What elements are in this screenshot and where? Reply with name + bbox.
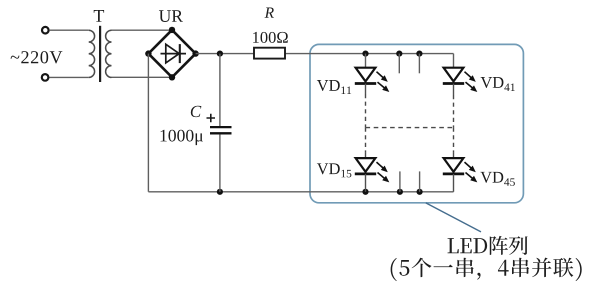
resistor R body xyxy=(254,48,285,59)
node: junction dot stub3 bottom xyxy=(417,189,423,195)
dashed string continuation VD11 column xyxy=(365,94,367,128)
dashed string continuation VD45 column xyxy=(453,128,455,153)
wire: capacitor upper lead xyxy=(219,54,221,126)
bridge corner dot bottom xyxy=(169,74,175,80)
LED VD41 label xyxy=(481,77,515,91)
transformer T secondary winding xyxy=(106,30,112,77)
wire: capacitor lower lead xyxy=(219,134,221,191)
LED VD41 xyxy=(443,68,478,95)
node: junction dot stub2 top xyxy=(396,51,402,57)
resistor R label xyxy=(265,8,274,18)
node: junction dot at capacitor top xyxy=(217,51,223,57)
AC source label ~220V xyxy=(11,51,63,63)
bridge rectifier UR body xyxy=(148,30,195,77)
wire: string3 stub bottom xyxy=(419,171,421,191)
LED array box xyxy=(310,44,523,202)
wire: VD15 anode nub xyxy=(365,153,367,159)
wire: string3 stub top xyxy=(418,54,420,74)
node: junction dot VD11 top xyxy=(362,51,368,57)
wire: VD41 branch from top wire xyxy=(453,54,455,68)
node: junction dot stub3 top xyxy=(416,51,422,57)
capacitor C label xyxy=(191,106,202,117)
LED VD45 xyxy=(443,158,478,192)
dashed horizontal tie xyxy=(366,127,454,129)
wire: resistor to LED array xyxy=(285,53,454,55)
wire: VD45 anode nub xyxy=(453,153,455,159)
wire: string2 stub bottom xyxy=(399,171,401,191)
LED VD15 xyxy=(355,158,390,192)
bridge rectifier UR label xyxy=(159,10,183,22)
transformer T label xyxy=(94,10,104,22)
wire: VD11 anode lead xyxy=(365,54,367,68)
dashed string continuation VD41 column xyxy=(453,95,455,128)
wire: secondary bottom to bridge xyxy=(112,76,173,78)
node: junction dot at capacitor bottom xyxy=(217,189,223,195)
transformer T core xyxy=(99,26,101,82)
dashed string continuation VD15 column xyxy=(365,128,367,153)
node: junction dot stub2 bottom xyxy=(397,189,403,195)
bridge corner dot left xyxy=(145,50,151,56)
wire: bridge left corner down to bottom rail xyxy=(147,54,149,192)
LED VD11 label xyxy=(317,80,351,94)
capacitor C plus sign xyxy=(207,114,216,123)
caption line 2: 5 in series, 4 strings in parallel (Chinese) xyxy=(391,258,582,281)
capacitor C plates xyxy=(210,127,232,133)
resistor R value 100ohm xyxy=(253,32,288,43)
wire: top terminal to primary xyxy=(50,29,89,31)
wire: string2 stub top xyxy=(398,54,400,74)
LED VD11 xyxy=(355,68,390,94)
terminal bottom xyxy=(42,74,49,81)
LED VD15 label xyxy=(317,163,351,177)
caption line 1: LED array (Chinese) xyxy=(448,236,528,255)
wire: bridge right corner to resistor xyxy=(196,53,254,55)
wire: bottom terminal to primary xyxy=(50,76,89,78)
bridge corner dot top xyxy=(169,27,175,33)
bridge corner dot right xyxy=(192,50,198,56)
wire: secondary top to bridge xyxy=(112,29,173,31)
transformer T primary winding xyxy=(89,30,95,77)
terminal top xyxy=(42,27,49,34)
wire: bottom rail xyxy=(148,191,453,193)
node: junction dot VD15 bottom xyxy=(362,189,368,195)
capacitor C value 1000u xyxy=(161,130,203,145)
pointer line from LED array box to caption xyxy=(426,203,481,232)
LED VD45 label xyxy=(480,172,514,186)
